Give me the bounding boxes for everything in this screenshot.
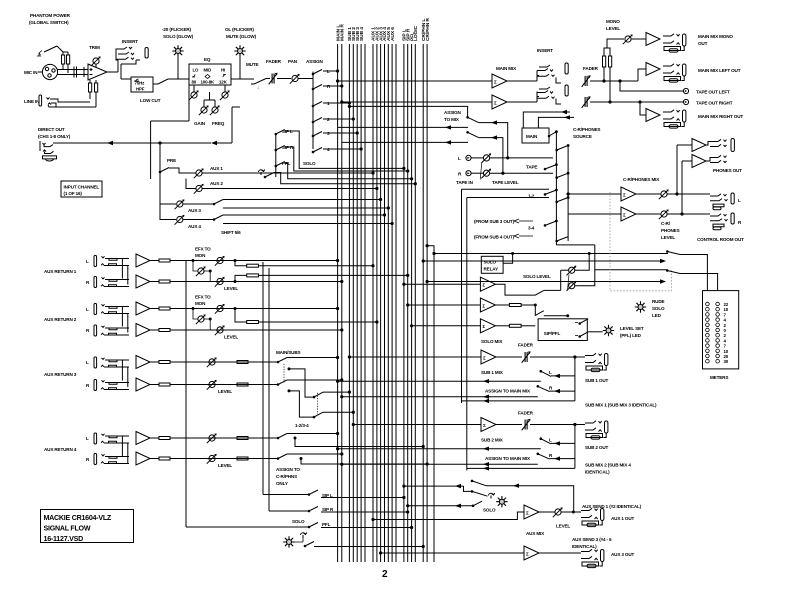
wire through EQ bbox=[231, 78, 254, 80]
LED level set bbox=[603, 325, 614, 336]
normalling wires bbox=[122, 307, 127, 333]
op-amp phones R bbox=[682, 160, 692, 162]
amp L bbox=[136, 356, 150, 369]
resistor R bbox=[150, 329, 159, 331]
line in jack bbox=[39, 95, 42, 106]
amp R bbox=[136, 452, 150, 465]
svg-text:TRIM: TRIM bbox=[89, 45, 100, 50]
phantom switch bbox=[37, 51, 42, 57]
switches bbox=[278, 434, 287, 439]
solo hook + LED bbox=[301, 533, 307, 538]
svg-text:MUTE (GLOW): MUTE (GLOW) bbox=[226, 34, 257, 39]
svg-text:LEVEL SET: LEVEL SET bbox=[620, 326, 644, 331]
sip/pfl switches bbox=[580, 319, 589, 324]
svg-text:CONTROL ROOM OUT: CONTROL ROOM OUT bbox=[697, 237, 744, 242]
svg-text:LEVEL: LEVEL bbox=[661, 235, 675, 240]
main sel switches bbox=[549, 132, 556, 136]
tape level pot L bbox=[481, 153, 491, 163]
1-2 switches bbox=[545, 190, 556, 194]
junction dots R1 bbox=[192, 260, 194, 262]
tape sel switches bbox=[545, 165, 556, 169]
op-amp sub1 bbox=[349, 356, 481, 358]
resistor L bbox=[150, 260, 159, 262]
bus AUX 2 bbox=[376, 44, 378, 562]
svg-text:SOLO: SOLO bbox=[292, 519, 305, 524]
meter scale labels bbox=[724, 302, 729, 364]
dashed section boundary bbox=[610, 192, 672, 291]
svg-text:PHONES OUT: PHONES OUT bbox=[713, 168, 742, 173]
svg-text:3-4: 3-4 bbox=[528, 226, 535, 231]
svg-text:INSERT: INSERT bbox=[122, 39, 138, 44]
MAIN box bbox=[522, 128, 549, 143]
bus CR/PHN R bbox=[426, 44, 428, 562]
resistor R bbox=[150, 458, 159, 460]
switch assign-to-mix L bbox=[467, 117, 469, 119]
svg-text:MID: MID bbox=[204, 68, 212, 73]
jack control room R bbox=[710, 214, 728, 227]
bus MAIN L bbox=[337, 44, 339, 562]
svg-text:AUX RETURN 4: AUX RETURN 4 bbox=[44, 447, 77, 452]
svg-text:DIRECT OUT: DIRECT OUT bbox=[38, 127, 65, 132]
normalling wires bbox=[122, 259, 127, 285]
pot aux level bbox=[539, 511, 555, 513]
wire to low cut bbox=[120, 64, 122, 79]
LED D1 bbox=[173, 46, 184, 57]
svg-text:L: L bbox=[86, 259, 89, 264]
solo select switch 1 bbox=[472, 481, 486, 486]
svg-text:AUX MIX: AUX MIX bbox=[526, 531, 545, 536]
jack control room L bbox=[710, 194, 728, 207]
jack sub1 out bbox=[585, 353, 608, 371]
svg-text:AUX 3 OUT: AUX 3 OUT bbox=[611, 552, 634, 557]
caps on mic lines bbox=[73, 67, 75, 73]
jack aux 1 out bbox=[581, 508, 604, 526]
pot phones R bbox=[636, 213, 661, 215]
tape out left bbox=[620, 81, 684, 91]
resistor L bbox=[150, 361, 159, 363]
amp L bbox=[136, 432, 150, 445]
svg-text:(GLOBAL SWITCH): (GLOBAL SWITCH) bbox=[29, 20, 69, 25]
main/subs switches L bbox=[278, 358, 287, 363]
resistor R bbox=[150, 384, 159, 386]
wire to sip r bbox=[269, 507, 318, 512]
meter LEDs col L bbox=[706, 302, 710, 363]
svg-text:PRE: PRE bbox=[167, 158, 176, 163]
svg-text:ASSIGN TO MAIN MIX: ASSIGN TO MAIN MIX bbox=[485, 456, 531, 461]
normalling wires bbox=[122, 360, 127, 387]
switch assign 1 bbox=[313, 102, 322, 107]
svg-text:MON: MON bbox=[195, 301, 206, 306]
wire to meter switch R bbox=[595, 269, 668, 271]
switch PFL bbox=[276, 162, 285, 167]
svg-text:SOLO MIX: SOLO MIX bbox=[481, 339, 503, 344]
op-amp solo 2 bbox=[408, 304, 481, 306]
svg-text:LEVEL: LEVEL bbox=[218, 463, 232, 468]
svg-text:SOLO (GLOW): SOLO (GLOW) bbox=[163, 34, 194, 39]
svg-text:C-R/PHONES: C-R/PHONES bbox=[573, 127, 600, 132]
pot phones L bbox=[636, 193, 661, 195]
switch assign 4 bbox=[313, 148, 322, 153]
line in resistors bbox=[89, 83, 92, 92]
wire to logic bbox=[274, 173, 415, 184]
svg-text:ASSIGN TO MAIN MIX: ASSIGN TO MAIN MIX bbox=[485, 389, 531, 394]
wire L out bbox=[590, 80, 638, 82]
svg-text:EQ: EQ bbox=[204, 57, 211, 62]
wire solo relay bbox=[503, 253, 512, 263]
switch meter R bbox=[667, 271, 680, 274]
svg-text:ASSIGN: ASSIGN bbox=[444, 110, 462, 115]
svg-text:LED: LED bbox=[652, 313, 662, 318]
svg-text:1-2/3-4: 1-2/3-4 bbox=[295, 423, 309, 428]
svg-text:LINE IN: LINE IN bbox=[24, 99, 40, 104]
op-amp aux mix bbox=[373, 512, 524, 520]
solo select switch 2 bbox=[472, 491, 488, 496]
wire main L bus to amp bbox=[338, 80, 492, 82]
amp L bbox=[136, 302, 150, 315]
switch meter L bbox=[667, 252, 680, 255]
op-amp solo 3 bbox=[412, 325, 481, 327]
normalling wires bbox=[122, 436, 127, 463]
svg-text:80: 80 bbox=[192, 80, 197, 85]
EQ gain pot bbox=[189, 90, 199, 100]
INPUT CHANNEL box bbox=[61, 181, 102, 197]
svg-text:INPUT CHANNEL: INPUT CHANNEL bbox=[64, 185, 100, 190]
svg-text:MIC IN: MIC IN bbox=[24, 70, 38, 75]
wires long bbox=[170, 361, 278, 363]
op-amp U1 input amp bbox=[88, 64, 107, 80]
EQ freq pots bbox=[199, 105, 209, 115]
svg-text:ASSIGN: ASSIGN bbox=[306, 59, 324, 64]
hook + LED solo bbox=[489, 493, 495, 498]
svg-text:MUTE: MUTE bbox=[246, 62, 259, 67]
meter LEDs col R bbox=[716, 302, 720, 363]
switch SIP L bbox=[276, 130, 285, 135]
svg-text:MAIN MIX RIGHT OUT: MAIN MIX RIGHT OUT bbox=[698, 114, 743, 119]
svg-text:AUX 6: AUX 6 bbox=[390, 27, 396, 41]
svg-text:MAIN: MAIN bbox=[526, 134, 538, 139]
efx stubs bbox=[193, 261, 210, 282]
bus SIP R bbox=[407, 44, 409, 562]
wire cr/phn r to meter sw bbox=[427, 281, 661, 283]
svg-text:↓: ↓ bbox=[257, 85, 259, 90]
pre switch bbox=[160, 168, 169, 173]
svg-text:LOGIC: LOGIC bbox=[413, 25, 419, 41]
svg-text:AUX SEND 3 (#4 - 6: AUX SEND 3 (#4 - 6 bbox=[572, 537, 612, 542]
svg-text:OL (FLICKER): OL (FLICKER) bbox=[225, 27, 254, 32]
resistors right bbox=[237, 361, 248, 364]
wires w left arrows bbox=[404, 485, 464, 487]
pot solo L bbox=[567, 266, 577, 276]
shift switch 4 bbox=[214, 215, 223, 220]
op-amp phones mix L bbox=[621, 187, 636, 201]
svg-text:L: L bbox=[549, 370, 552, 375]
level pot L bbox=[215, 256, 225, 266]
svg-text:(CHS 1-8 ONLY): (CHS 1-8 ONLY) bbox=[38, 134, 71, 139]
wire main R bus to amp bbox=[342, 101, 492, 103]
solo hook switch bbox=[259, 170, 265, 175]
rude solo led bbox=[635, 302, 646, 313]
switch SIP R bbox=[276, 146, 285, 151]
svg-text:SOLO: SOLO bbox=[303, 161, 316, 166]
tape out right bbox=[683, 99, 688, 104]
svg-text:2: 2 bbox=[382, 569, 388, 580]
wire to pfl led bbox=[588, 331, 602, 333]
efx aux wire bbox=[235, 309, 377, 322]
wire assign R to main bbox=[342, 463, 538, 465]
op-amp left out bbox=[638, 69, 646, 81]
svg-text:IDENTICAL): IDENTICAL) bbox=[585, 470, 610, 475]
svg-text:SUB 4: SUB 4 bbox=[359, 27, 365, 41]
efx aux wires bbox=[235, 261, 373, 266]
svg-text:CR/PHN R: CR/PHN R bbox=[425, 18, 431, 41]
svg-text:SIGNAL FLOW: SIGNAL FLOW bbox=[44, 525, 91, 533]
wire xlr to amp bbox=[58, 69, 88, 71]
wire from solo sw to aux jack bbox=[486, 486, 574, 513]
svg-text:GAIN: GAIN bbox=[194, 121, 206, 126]
jack aux 3 out bbox=[581, 549, 604, 567]
SOLO RELAY box bbox=[481, 256, 503, 273]
bus AUX 4 bbox=[384, 44, 386, 562]
wire assign R to main bbox=[342, 396, 538, 398]
svg-text:C-R/PHONES MIX: C-R/PHONES MIX bbox=[623, 177, 660, 182]
main/subs switches R bbox=[278, 380, 287, 385]
svg-text:L: L bbox=[86, 360, 89, 365]
svg-text:AUX RETURN 2: AUX RETURN 2 bbox=[44, 317, 77, 322]
svg-text:MON: MON bbox=[195, 253, 206, 258]
bus LOGIC bbox=[414, 44, 416, 562]
solo amp1 out bbox=[495, 284, 543, 295]
svg-text:HI: HI bbox=[221, 68, 225, 73]
svg-text:SOLO: SOLO bbox=[483, 508, 496, 513]
svg-text:-20 (FLICKER): -20 (FLICKER) bbox=[162, 27, 192, 32]
switch assign L bbox=[313, 70, 322, 75]
tape level pot R bbox=[481, 169, 491, 179]
wire to sip l bbox=[263, 490, 318, 495]
pot solo R bbox=[567, 281, 577, 291]
switch assign 2 bbox=[313, 118, 322, 123]
phones jacks bbox=[706, 142, 710, 146]
svg-text:TAPE: TAPE bbox=[526, 165, 537, 170]
phones rails bbox=[676, 145, 678, 194]
svg-text:SOLO LEVEL: SOLO LEVEL bbox=[523, 274, 551, 279]
bus AUX 3 bbox=[380, 44, 382, 562]
solo amp2 out w resistor bbox=[495, 304, 509, 306]
wires L/R to main bus bbox=[170, 260, 338, 262]
rail A bbox=[185, 261, 187, 528]
svg-text:PHANTOM POWER: PHANTOM POWER bbox=[30, 13, 71, 18]
sub2 feed vertical bbox=[574, 425, 576, 469]
level pot R bbox=[215, 325, 225, 335]
svg-text:SUB 2 MIX: SUB 2 MIX bbox=[481, 438, 504, 443]
svg-text:L: L bbox=[458, 156, 461, 161]
svg-text:AUX 4: AUX 4 bbox=[188, 224, 201, 229]
svg-text:AUX 1: AUX 1 bbox=[210, 166, 223, 171]
svg-text:(1 OF 16): (1 OF 16) bbox=[64, 191, 83, 196]
svg-text:MONO: MONO bbox=[606, 19, 620, 24]
svg-text:12K: 12K bbox=[219, 80, 228, 85]
post fader rail bbox=[150, 121, 152, 179]
op-amp mono out bbox=[646, 33, 660, 46]
amp R bbox=[136, 275, 150, 288]
amp L bbox=[136, 254, 150, 267]
svg-text:AUX RETURN 1: AUX RETURN 1 bbox=[44, 269, 77, 274]
svg-text:LEVEL: LEVEL bbox=[556, 524, 570, 529]
svg-text:SOURCE: SOURCE bbox=[573, 134, 592, 139]
wire to meter switch L bbox=[434, 253, 668, 255]
LED D2 bbox=[235, 46, 246, 57]
bus PFL bbox=[411, 44, 413, 562]
svg-text:AUX 2: AUX 2 bbox=[210, 181, 223, 186]
svg-text:(FROM SUB 3 OUT): (FROM SUB 3 OUT) bbox=[474, 219, 515, 224]
phantom resistors bbox=[62, 55, 65, 64]
bus spare2 bbox=[395, 44, 397, 562]
arrow direct out bbox=[107, 141, 113, 145]
svg-text:FADER: FADER bbox=[518, 411, 534, 416]
wires long bbox=[170, 437, 278, 439]
svg-text:ASSIGN TO: ASSIGN TO bbox=[276, 467, 300, 472]
meters box bbox=[703, 291, 739, 369]
switch assign-to-mix R bbox=[467, 132, 469, 134]
XLR connector bbox=[42, 64, 57, 79]
svg-text:SOLO: SOLO bbox=[652, 306, 665, 311]
svg-text:MACKIE CR1604-VLZ: MACKIE CR1604-VLZ bbox=[44, 514, 112, 522]
wire amp out bbox=[107, 71, 118, 73]
svg-text:OUT: OUT bbox=[698, 41, 708, 46]
op-amp main R sum bbox=[492, 95, 507, 109]
svg-text:SUB 1 OUT: SUB 1 OUT bbox=[585, 378, 608, 383]
solo amp3 out w resistor bbox=[495, 325, 509, 327]
75Hz HPF box bbox=[131, 77, 153, 92]
wire assign L to main bbox=[338, 380, 541, 382]
svg-text:SIP R: SIP R bbox=[322, 507, 334, 512]
bus AUX 5 bbox=[387, 44, 389, 562]
bus spare bbox=[364, 44, 366, 562]
bus SUB 3 bbox=[356, 44, 358, 562]
insert jack R pair bbox=[507, 101, 537, 103]
bus SIP L bbox=[403, 44, 405, 562]
svg-text:PFL: PFL bbox=[322, 522, 331, 527]
svg-text:L: L bbox=[549, 438, 552, 443]
svg-text:LOW CUT: LOW CUT bbox=[140, 98, 161, 103]
svg-text:L: L bbox=[86, 307, 89, 312]
svg-text:SHIFT 5/6: SHIFT 5/6 bbox=[221, 230, 241, 235]
svg-text:HPF: HPF bbox=[136, 87, 145, 92]
svg-text:L: L bbox=[738, 198, 741, 203]
bus SUB 4 bbox=[360, 44, 362, 562]
wires to control room out bbox=[667, 193, 710, 195]
bus SUB 2 bbox=[352, 44, 354, 562]
wire low path bbox=[120, 78, 122, 80]
pot feeds bbox=[575, 254, 589, 271]
svg-text:TAPE OUT LEFT: TAPE OUT LEFT bbox=[696, 90, 730, 95]
amp R bbox=[136, 324, 150, 337]
resistors right bbox=[237, 437, 248, 440]
wires to phones mix amps bbox=[568, 193, 621, 195]
efx to mon pot bbox=[196, 266, 206, 276]
wire assign L to main bbox=[338, 448, 541, 450]
svg-text:SUB 2 OUT: SUB 2 OUT bbox=[585, 445, 608, 450]
svg-text:AUX 3: AUX 3 bbox=[188, 208, 201, 213]
svg-text:AUX SEND 1 (#2 IDENTICAL): AUX SEND 1 (#2 IDENTICAL) bbox=[582, 504, 642, 509]
svg-text:SUB MIX 1 (SUB MIX 3 IDENTICAL: SUB MIX 1 (SUB MIX 3 IDENTICAL) bbox=[585, 403, 657, 408]
wire R out bbox=[590, 101, 684, 103]
shift switch 3 bbox=[214, 200, 223, 205]
svg-text:INSERT: INSERT bbox=[537, 48, 553, 53]
SIP/PFL box bbox=[538, 319, 587, 341]
main fader R bbox=[582, 96, 591, 108]
rail 434 bbox=[427, 246, 434, 562]
svg-text:EFX TO: EFX TO bbox=[195, 295, 211, 300]
jack sub2 out bbox=[585, 421, 608, 439]
svg-text:AUX 1 OUT: AUX 1 OUT bbox=[611, 516, 634, 521]
svg-text:PAN: PAN bbox=[288, 59, 298, 64]
collect rails bbox=[555, 132, 557, 245]
wire to jack bbox=[561, 511, 581, 513]
op-amp solo 1 bbox=[404, 283, 481, 285]
rails sub feed bbox=[461, 189, 463, 403]
tape wires to switches bbox=[490, 157, 553, 159]
switch assign 3 bbox=[313, 132, 322, 137]
svg-text:30: 30 bbox=[724, 359, 729, 364]
sub1 feed vertical bbox=[574, 357, 576, 401]
svg-text:FREQ: FREQ bbox=[212, 121, 225, 126]
direct out jack bbox=[40, 141, 53, 151]
low cut switch bbox=[153, 83, 158, 85]
svg-text:SUB MIX 2 (SUB MIX 4: SUB MIX 2 (SUB MIX 4 bbox=[585, 463, 631, 468]
bus labels bbox=[335, 18, 431, 41]
svg-text:FADER: FADER bbox=[583, 66, 599, 71]
wires L/R to main bus bbox=[170, 308, 338, 310]
rail B bbox=[262, 262, 264, 495]
efx to mon pot bbox=[196, 314, 206, 324]
pfl wire 3 bbox=[473, 501, 482, 506]
op-amp aux 3 bbox=[381, 552, 524, 554]
svg-text:ONLY: ONLY bbox=[276, 481, 288, 486]
svg-text:TAPE IN: TAPE IN bbox=[456, 180, 474, 185]
svg-text:METERS: METERS bbox=[710, 375, 728, 380]
svg-text:EFX TO: EFX TO bbox=[195, 247, 211, 252]
svg-text:MAIN MIX LEFT OUT: MAIN MIX LEFT OUT bbox=[698, 68, 741, 73]
svg-text:IDENTICAL): IDENTICAL) bbox=[572, 544, 597, 549]
insert jack L pair bbox=[507, 80, 537, 82]
resistor L bbox=[150, 437, 159, 439]
wire sub1 top jog bbox=[348, 105, 467, 117]
svg-text:LEVEL: LEVEL bbox=[218, 389, 232, 394]
assign rail bbox=[308, 72, 313, 150]
svg-text:C-R/: C-R/ bbox=[661, 221, 671, 226]
svg-text:FADER: FADER bbox=[266, 59, 282, 64]
svg-text:16-1127.VSD: 16-1127.VSD bbox=[44, 535, 84, 543]
level pot L bbox=[215, 304, 225, 314]
bus CR/PHN L bbox=[422, 44, 424, 562]
svg-text:MAIN MIX: MAIN MIX bbox=[496, 66, 517, 71]
wire sub1 out return bbox=[462, 400, 575, 402]
svg-text:RUDE: RUDE bbox=[652, 299, 665, 304]
svg-text:LEVEL: LEVEL bbox=[224, 335, 238, 340]
svg-text:FADER: FADER bbox=[518, 343, 534, 348]
main fader L bbox=[582, 75, 591, 87]
svg-text:C-R/PHNS: C-R/PHNS bbox=[276, 474, 297, 479]
op-amp sub2 bbox=[353, 424, 481, 426]
svg-text:TAPE LEVEL: TAPE LEVEL bbox=[492, 180, 519, 185]
mono level pot bbox=[623, 34, 633, 44]
svg-text:MAIN/SUBS: MAIN/SUBS bbox=[276, 350, 301, 355]
svg-text:TO MIX: TO MIX bbox=[444, 117, 460, 122]
sip rail bbox=[275, 134, 277, 177]
svg-text:RELAY: RELAY bbox=[484, 267, 498, 272]
svg-text:LEVEL: LEVEL bbox=[606, 26, 620, 31]
switch assign R bbox=[313, 85, 322, 90]
